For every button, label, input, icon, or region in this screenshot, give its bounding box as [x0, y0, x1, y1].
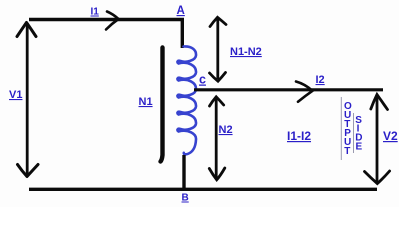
node A: [177, 5, 185, 17]
label N2: [219, 124, 233, 136]
svg-text:E: E: [356, 142, 363, 153]
voltage arrow V1: [17, 23, 38, 177]
turns arrow N2: [209, 97, 225, 180]
svg-text:N1: N1: [139, 96, 153, 108]
wire top conductor: [29, 18, 184, 21]
svg-text:I1-I2: I1-I2: [287, 129, 311, 143]
wire bottom conductor: [29, 188, 377, 191]
label N1: [139, 96, 153, 108]
svg-text:I2: I2: [316, 74, 325, 86]
wire node A down to winding top: [181, 18, 184, 48]
current arrow I2: [296, 82, 313, 102]
node C tap label: [199, 73, 206, 87]
svg-text:N2: N2: [219, 124, 233, 136]
wire winding bottom to node B: [182, 155, 185, 190]
node B: [182, 193, 189, 204]
label V2: [383, 129, 398, 143]
label I2: [316, 74, 325, 86]
turns arrow N1-N2: [210, 17, 227, 81]
current arrow I1: [106, 12, 119, 30]
label SIDE (vertical): [355, 115, 362, 153]
separator line between OUTPUT and SIDE: [353, 113, 355, 153]
label I1: [91, 7, 100, 18]
svg-text:N1-N2: N1-N2: [230, 46, 262, 58]
svg-text:B: B: [182, 193, 189, 204]
svg-text:A: A: [177, 5, 185, 17]
svg-text:I1: I1: [91, 7, 100, 18]
label N1-N2: [230, 46, 262, 58]
svg-text:T: T: [344, 146, 350, 157]
winding N1 (autotransformer coil): [177, 46, 196, 154]
label I1-I2: [287, 129, 311, 143]
label OUTPUT (vertical): [344, 101, 352, 157]
wire tap C to output: [194, 88, 383, 91]
transformer core bar: [161, 48, 163, 162]
svg-text:c: c: [199, 73, 206, 87]
svg-text:V1: V1: [9, 89, 22, 101]
voltage arrow V2: [365, 95, 390, 184]
svg-text:V2: V2: [383, 129, 398, 143]
label V1: [9, 89, 22, 101]
separator line left of OUTPUT: [340, 97, 342, 160]
